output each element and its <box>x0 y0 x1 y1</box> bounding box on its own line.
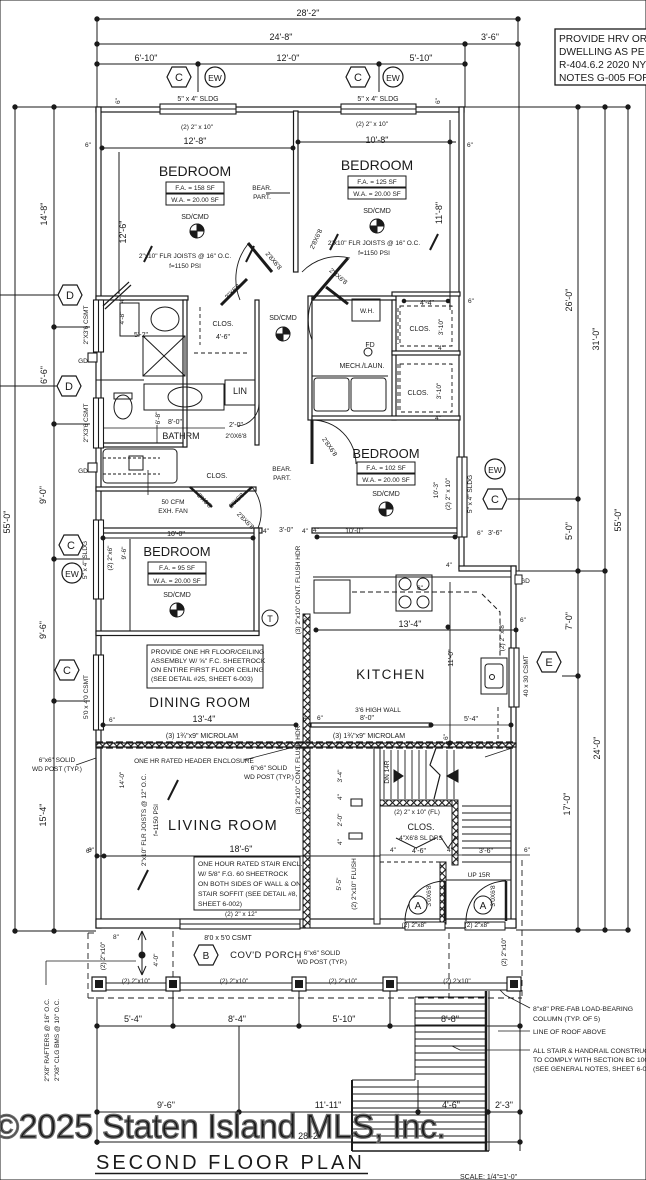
svg-text:DWELLING AS PE: DWELLING AS PE <box>559 47 645 58</box>
svg-text:6": 6" <box>303 716 310 723</box>
svg-text:EW: EW <box>65 569 79 579</box>
svg-text:W.A. = 20.00 SF: W.A. = 20.00 SF <box>353 191 401 198</box>
svg-text:ONE HOUR RATED STAIR ENCL.: ONE HOUR RATED STAIR ENCL. <box>198 861 302 868</box>
svg-text:©2025 Staten Island MLS, Inc.: ©2025 Staten Island MLS, Inc. <box>0 1108 446 1146</box>
svg-text:BEDROOM: BEDROOM <box>159 163 231 179</box>
svg-text:W.A. = 20.00 SF: W.A. = 20.00 SF <box>153 578 201 585</box>
svg-text:B: B <box>203 951 210 962</box>
svg-text:(2) 2" x 10": (2) 2" x 10" <box>445 477 452 510</box>
svg-text:4": 4" <box>435 415 442 422</box>
svg-text:f=1150 PSI: f=1150 PSI <box>358 250 390 257</box>
svg-text:4": 4" <box>446 562 453 569</box>
svg-text:CLOS.: CLOS. <box>407 822 434 832</box>
svg-text:(2) 2" x 10" (FL): (2) 2" x 10" (FL) <box>394 809 440 816</box>
svg-text:(2) 2"x8": (2) 2"x8" <box>465 922 491 929</box>
svg-text:FD: FD <box>365 342 374 349</box>
svg-text:(2) 2" x 12": (2) 2" x 12" <box>225 911 258 918</box>
svg-text:3'-6": 3'-6" <box>488 530 502 537</box>
svg-text:4'-6": 4'-6" <box>412 848 426 855</box>
svg-text:EW: EW <box>488 465 502 475</box>
svg-text:(3) 1¾"x9" MICROLAM: (3) 1¾"x9" MICROLAM <box>166 733 238 740</box>
svg-text:4": 4" <box>302 528 309 535</box>
svg-text:6": 6" <box>524 847 531 854</box>
svg-text:BEDROOM: BEDROOM <box>341 157 413 173</box>
svg-text:f=1150 PSI: f=1150 PSI <box>153 804 160 836</box>
svg-text:8'-0": 8'-0" <box>360 715 374 722</box>
svg-text:2'0X6'8: 2'0X6'8 <box>225 433 247 440</box>
svg-text:3'-0": 3'-0" <box>279 527 293 534</box>
svg-text:SCALE: 1/4"=1'-0": SCALE: 1/4"=1'-0" <box>460 1174 518 1180</box>
svg-text:40 x 30 CSMT: 40 x 30 CSMT <box>523 655 530 697</box>
svg-text:BEDROOM: BEDROOM <box>352 446 419 461</box>
svg-text:GD: GD <box>78 468 88 475</box>
svg-text:6": 6" <box>467 142 474 149</box>
svg-text:C: C <box>175 72 183 84</box>
svg-text:6'-8": 6'-8" <box>155 411 162 425</box>
svg-text:LIVING ROOM: LIVING ROOM <box>168 818 278 834</box>
svg-text:5'-4": 5'-4" <box>464 716 478 723</box>
svg-text:9'-6": 9'-6" <box>121 546 128 560</box>
svg-text:6"x6" SOLID: 6"x6" SOLID <box>39 757 76 764</box>
svg-text:26'-0": 26'-0" <box>564 289 574 312</box>
svg-text:6": 6" <box>317 715 324 722</box>
svg-text:6": 6" <box>520 617 527 624</box>
svg-text:BEAR.: BEAR. <box>272 466 292 473</box>
svg-text:12'-8": 12'-8" <box>184 136 207 146</box>
svg-text:5" x 4" SLDG: 5" x 4" SLDG <box>82 541 89 579</box>
svg-text:14'-0": 14'-0" <box>119 771 126 788</box>
svg-text:5'0 x 4'0 CSMT: 5'0 x 4'0 CSMT <box>83 675 90 719</box>
svg-text:8"x8" PRE-FAB LOAD-BEARING: 8"x8" PRE-FAB LOAD-BEARING <box>533 1006 633 1013</box>
svg-text:LIN: LIN <box>233 386 247 396</box>
svg-text:CLOS.: CLOS. <box>206 473 227 480</box>
svg-text:WD POST (TYP.): WD POST (TYP.) <box>297 959 347 966</box>
svg-text:6": 6" <box>435 97 442 104</box>
svg-text:8": 8" <box>113 934 120 941</box>
svg-text:F.A. = 125 SF: F.A. = 125 SF <box>357 179 397 186</box>
svg-text:(3) 1¾"x9" MICROLAM: (3) 1¾"x9" MICROLAM <box>333 733 405 740</box>
svg-text:3'-10": 3'-10" <box>436 382 443 399</box>
svg-text:8'-0": 8'-0" <box>168 419 182 426</box>
svg-text:10'-8": 10'-8" <box>366 135 389 145</box>
svg-text:W.A. = 20.00 SF: W.A. = 20.00 SF <box>171 197 219 204</box>
svg-text:CLOS.: CLOS. <box>407 390 428 397</box>
svg-text:4": 4" <box>313 527 320 534</box>
svg-text:3'-4": 3'-4" <box>337 769 344 783</box>
svg-text:EXH. FAN: EXH. FAN <box>158 508 188 515</box>
svg-text:15'-4": 15'-4" <box>38 804 48 827</box>
svg-text:2"X3'6 CSMT: 2"X3'6 CSMT <box>83 305 90 344</box>
svg-text:C: C <box>491 494 499 506</box>
svg-text:4": 4" <box>447 847 454 854</box>
svg-text:STAIR SOFFIT (SEE DETAIL #8,: STAIR SOFFIT (SEE DETAIL #8, <box>198 891 298 898</box>
svg-text:31'-0": 31'-0" <box>591 328 601 351</box>
svg-text:LINE OF ROOF ABOVE: LINE OF ROOF ABOVE <box>533 1029 606 1036</box>
svg-text:SECOND FLOOR PLAN: SECOND FLOOR PLAN <box>96 1152 364 1174</box>
svg-text:(2) 2" x 8": (2) 2" x 8" <box>499 622 506 651</box>
svg-text:COV'D PORCH: COV'D PORCH <box>230 950 302 961</box>
svg-text:7'-0": 7'-0" <box>564 612 574 630</box>
svg-text:28'-2": 28'-2" <box>297 8 320 18</box>
svg-text:55'-0": 55'-0" <box>2 511 12 534</box>
svg-text:9'-0": 9'-0" <box>38 486 48 504</box>
svg-text:3'6 HIGH WALL: 3'6 HIGH WALL <box>355 707 401 714</box>
svg-text:W.A. = 20.00 SF: W.A. = 20.00 SF <box>362 477 410 484</box>
svg-text:5'-2": 5'-2" <box>134 332 148 339</box>
svg-text:6": 6" <box>417 585 424 592</box>
svg-text:24'-0": 24'-0" <box>592 737 602 760</box>
svg-text:SHEET 6-002): SHEET 6-002) <box>198 901 242 908</box>
svg-text:WD POST (TYP.): WD POST (TYP.) <box>32 766 82 773</box>
svg-text:10'-0": 10'-0" <box>167 531 185 538</box>
svg-text:4'-0": 4'-0" <box>153 953 160 967</box>
svg-text:2"X8" CLG BMS @ 10" O.C.: 2"X8" CLG BMS @ 10" O.C. <box>54 999 61 1081</box>
svg-text:5'-0": 5'-0" <box>564 522 574 540</box>
svg-text:GD: GD <box>78 358 88 365</box>
svg-text:SD/CMD: SD/CMD <box>181 214 209 221</box>
svg-text:(2) 2" x 10": (2) 2" x 10" <box>181 124 214 131</box>
svg-text:4"X6'8 SL DRS: 4"X6'8 SL DRS <box>399 835 443 842</box>
svg-text:9'-6": 9'-6" <box>38 621 48 639</box>
svg-text:8'-4": 8'-4" <box>228 1014 246 1024</box>
svg-text:6"x6" SOLID: 6"x6" SOLID <box>304 950 341 957</box>
svg-text:11'-8": 11'-8" <box>434 202 444 224</box>
svg-text:50 CFM: 50 CFM <box>161 499 184 506</box>
svg-text:5'-10": 5'-10" <box>410 53 433 63</box>
svg-text:F.A. = 158 SF: F.A. = 158 SF <box>175 185 215 192</box>
svg-text:2"X3'6 CSMT: 2"X3'6 CSMT <box>83 403 90 442</box>
svg-text:17'-0": 17'-0" <box>562 793 572 816</box>
svg-text:6": 6" <box>109 717 116 724</box>
svg-text:(2) 2" x 10": (2) 2" x 10" <box>356 121 389 128</box>
svg-text:3'0X6'8: 3'0X6'8 <box>490 885 497 907</box>
svg-text:6": 6" <box>477 530 484 537</box>
svg-text:2"x10" FLR JOISTS @ 16" O.C.: 2"x10" FLR JOISTS @ 16" O.C. <box>328 240 420 247</box>
svg-text:MECH./LAUN.: MECH./LAUN. <box>339 363 384 370</box>
svg-text:R-404.6.2 2020 NY: R-404.6.2 2020 NY <box>559 60 646 71</box>
svg-text:8'-8": 8'-8" <box>441 1014 459 1024</box>
svg-text:D: D <box>66 290 74 302</box>
svg-text:DN 14R: DN 14R <box>384 760 391 783</box>
svg-text:E: E <box>545 657 552 669</box>
svg-text:SD/CMD: SD/CMD <box>372 491 400 498</box>
svg-text:(2) 2"x10": (2) 2"x10" <box>501 937 508 966</box>
svg-text:6": 6" <box>86 848 93 855</box>
svg-text:18'-6": 18'-6" <box>230 844 253 854</box>
svg-text:SD/CMD: SD/CMD <box>163 592 191 599</box>
svg-text:4'-8": 4'-8" <box>119 311 126 325</box>
svg-text:4": 4" <box>119 296 126 303</box>
svg-text:8'0 x 5'0 CSMT: 8'0 x 5'0 CSMT <box>204 935 252 942</box>
svg-text:PROVIDE HRV OR: PROVIDE HRV OR <box>559 34 646 45</box>
svg-text:f=1150 PSI: f=1150 PSI <box>169 263 201 270</box>
svg-text:(3) 2"x10" CONT. FLUSH HDR: (3) 2"x10" CONT. FLUSH HDR <box>295 725 302 814</box>
svg-text:WD POST (TYP.): WD POST (TYP.) <box>244 774 294 781</box>
svg-text:3'-6": 3'-6" <box>479 848 493 855</box>
svg-text:6": 6" <box>115 97 122 104</box>
svg-text:6": 6" <box>85 142 92 149</box>
svg-text:5'-4": 5'-4" <box>124 1014 142 1024</box>
svg-text:2'-0": 2'-0" <box>229 422 243 429</box>
svg-text:C: C <box>354 72 362 84</box>
svg-text:2"X8" RAFTERS @ 16" O.C.: 2"X8" RAFTERS @ 16" O.C. <box>44 998 51 1081</box>
svg-text:BATHRM: BATHRM <box>162 431 199 441</box>
svg-text:EW: EW <box>386 73 400 83</box>
svg-text:14'-8": 14'-8" <box>39 203 49 226</box>
svg-text:2"x10" FLR JOISTS @ 12" O.C.: 2"x10" FLR JOISTS @ 12" O.C. <box>141 774 148 866</box>
svg-text:ON BOTH SIDES OF WALL & ON: ON BOTH SIDES OF WALL & ON <box>198 881 301 888</box>
svg-text:C: C <box>67 540 75 552</box>
svg-text:F.A. = 102 SF: F.A. = 102 SF <box>366 465 406 472</box>
svg-text:D: D <box>65 381 73 393</box>
svg-text:6'-10": 6'-10" <box>135 53 158 63</box>
svg-text:10'-3": 10'-3" <box>433 481 440 498</box>
svg-text:CLOS.: CLOS. <box>409 326 430 333</box>
svg-text:5'-5": 5'-5" <box>336 877 343 891</box>
svg-text:4": 4" <box>263 528 270 535</box>
svg-text:ON ENTIRE FIRST FLOOR CEILING: ON ENTIRE FIRST FLOOR CEILING <box>151 667 264 674</box>
svg-text:BEAR.: BEAR. <box>252 185 272 192</box>
svg-text:DINING ROOM: DINING ROOM <box>149 695 251 710</box>
svg-text:3'0X6'8: 3'0X6'8 <box>426 885 433 907</box>
svg-text:4": 4" <box>390 847 397 854</box>
svg-text:T: T <box>267 614 273 624</box>
svg-text:COLUMN (TYP. OF 5): COLUMN (TYP. OF 5) <box>533 1016 600 1023</box>
svg-text:2"x10" FLR JOISTS @ 16" O.C.: 2"x10" FLR JOISTS @ 16" O.C. <box>139 253 231 260</box>
svg-text:(SEE GENERAL NOTES, SHEET 6-00: (SEE GENERAL NOTES, SHEET 6-00 <box>533 1066 646 1073</box>
svg-text:10'-0": 10'-0" <box>345 528 363 535</box>
svg-text:PART.: PART. <box>253 194 271 201</box>
svg-text:12'-0": 12'-0" <box>277 53 300 63</box>
svg-text:(2) 2"x6": (2) 2"x6" <box>107 545 114 571</box>
svg-text:(3) 2"x10" CONT. FLUSH HDR: (3) 2"x10" CONT. FLUSH HDR <box>295 545 302 634</box>
svg-text:KITCHEN: KITCHEN <box>356 667 426 682</box>
svg-text:BEDROOM: BEDROOM <box>143 544 210 559</box>
svg-text:NOTES G-005 FOR: NOTES G-005 FOR <box>559 73 646 84</box>
svg-text:6"x6" SOLID: 6"x6" SOLID <box>251 765 288 772</box>
svg-text:W/ 5/8" F.G. 60 SHEETROCK: W/ 5/8" F.G. 60 SHEETROCK <box>198 871 289 878</box>
svg-text:2'-0": 2'-0" <box>337 813 344 827</box>
svg-text:4": 4" <box>337 793 344 800</box>
svg-text:(2) 2"x8": (2) 2"x8" <box>402 922 428 929</box>
svg-text:13'-4": 13'-4" <box>193 714 216 724</box>
svg-text:F.A. = 95 SF: F.A. = 95 SF <box>159 565 195 572</box>
svg-text:5'-10": 5'-10" <box>333 1014 356 1024</box>
svg-text:6'-6": 6'-6" <box>39 366 49 384</box>
svg-text:4": 4" <box>337 838 344 845</box>
svg-text:UP 15R: UP 15R <box>468 872 491 879</box>
svg-text:4'-6": 4'-6" <box>216 334 230 341</box>
svg-text:A: A <box>480 901 487 912</box>
svg-text:24'-8": 24'-8" <box>270 32 293 42</box>
svg-text:6": 6" <box>468 298 475 305</box>
svg-text:(SEE DETAIL #25, SHEET 6-003): (SEE DETAIL #25, SHEET 6-003) <box>151 676 253 683</box>
svg-text:ONE HR RATED HEADER ENCLOSURE: ONE HR RATED HEADER ENCLOSURE <box>134 758 254 765</box>
svg-text:(2) 2"x10" FLUSH: (2) 2"x10" FLUSH <box>351 858 358 910</box>
svg-text:(2) 2"x10": (2) 2"x10" <box>122 978 151 985</box>
svg-text:11'-0": 11'-0" <box>448 649 455 667</box>
svg-text:6": 6" <box>303 618 310 625</box>
svg-text:(2) 2"x10": (2) 2"x10" <box>100 941 107 970</box>
svg-text:EW: EW <box>208 73 222 83</box>
svg-text:TO COMPLY WITH SECTION BC 100: TO COMPLY WITH SECTION BC 100 <box>533 1057 646 1064</box>
svg-text:CLOS.: CLOS. <box>212 321 233 328</box>
svg-text:ALL STAIR & HANDRAIL CONSTRUC: ALL STAIR & HANDRAIL CONSTRUC <box>533 1048 646 1055</box>
svg-text:SD/CMD: SD/CMD <box>269 315 297 322</box>
svg-text:5" x 4" SLDG: 5" x 4" SLDG <box>357 96 398 103</box>
svg-text:3'-6": 3'-6" <box>481 32 499 42</box>
svg-text:PROVIDE ONE HR FLOOR/CEILING: PROVIDE ONE HR FLOOR/CEILING <box>151 649 264 656</box>
svg-text:3'-10": 3'-10" <box>438 318 445 335</box>
svg-text:C: C <box>63 665 71 677</box>
svg-text:A: A <box>415 901 422 912</box>
svg-text:W.H.: W.H. <box>360 308 374 315</box>
svg-text:13'-4": 13'-4" <box>399 619 422 629</box>
svg-text:(2) 2'x10": (2) 2'x10" <box>443 978 471 985</box>
svg-text:SD/CMD: SD/CMD <box>363 208 391 215</box>
svg-text:(2) 2"x10": (2) 2"x10" <box>329 978 358 985</box>
svg-text:55'-0": 55'-0" <box>613 509 623 532</box>
svg-text:5" x 4" SLDG: 5" x 4" SLDG <box>467 475 474 513</box>
svg-text:(2) 2"x10": (2) 2"x10" <box>220 978 249 985</box>
svg-text:PART.: PART. <box>273 475 291 482</box>
svg-text:5" x 4" SLDG: 5" x 4" SLDG <box>177 96 218 103</box>
svg-text:6": 6" <box>443 733 450 740</box>
svg-text:2'-3": 2'-3" <box>495 1100 513 1110</box>
svg-text:ASSEMBLY W/ ⅝" F.C. SHEETROCK: ASSEMBLY W/ ⅝" F.C. SHEETROCK <box>151 658 266 665</box>
